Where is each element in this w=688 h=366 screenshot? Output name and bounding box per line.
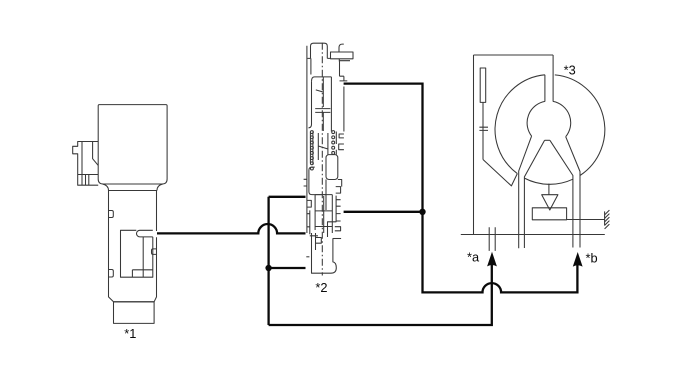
valve body *2 right port C2 (339, 144, 344, 150)
valve body *2 bottom left bracket (310, 236, 322, 243)
arrowhead *b (573, 252, 583, 267)
*3 strut inner right leg (550, 140, 573, 247)
*3 piston rectangle (532, 208, 566, 220)
*3 hub circle left arc (527, 101, 545, 136)
*3 narrow rod rectangle (480, 68, 486, 102)
arrowhead *a (487, 252, 497, 267)
solenoid *1 connector inner vertical 1 (81, 142, 83, 175)
valve body *2 lower spool verticals (315, 195, 332, 233)
valve body *2 right C-bracket (336, 187, 341, 194)
brake band assembly *3 case top edge (474, 54, 554, 56)
valve body *2 top cap (307, 43, 330, 58)
valve body *2 left C-notch (307, 200, 311, 207)
solenoid *1 connector mid line (78, 174, 99, 176)
*3 port a lines (489, 227, 495, 251)
*3 piston center rod (548, 184, 550, 195)
valve body *2 right wall upper (343, 87, 345, 132)
*3 strut outer right leg (566, 137, 580, 248)
valve body *2 bottom right tick (333, 238, 341, 240)
solenoid *1 body left notch lower (109, 270, 114, 278)
wire: left vertical run (269, 197, 306, 325)
valve body *2 bottom outline (312, 233, 337, 273)
solenoid *1 connector outline (73, 142, 99, 186)
*3 anchor rod adjuster ticks (479, 127, 488, 130)
valve body *2 left inner wall (307, 210, 310, 234)
wire: *1 output to *2 left mid port with crossover hump (157, 224, 306, 233)
solenoid *1 connector lower pins (82, 175, 89, 186)
solenoid *1 tip (114, 302, 155, 324)
solenoid *1 inner chamber (121, 230, 153, 277)
*3 strut inner left leg (524, 140, 544, 248)
valve body *2 right lower C-bracket (335, 227, 341, 231)
valve body *2 left ticks (304, 179, 307, 186)
*3 band slot right vertical (552, 55, 554, 102)
svg-text:*3: *3 (564, 63, 576, 78)
svg-text:*1: *1 (124, 326, 136, 341)
solenoid *1 body left notch upper (109, 211, 114, 218)
valve body *2 mid spool (318, 133, 328, 160)
wire: junction branch to *2 right port (344, 211, 423, 213)
solenoid *1 connector inner vertical 2 with notch (93, 142, 99, 166)
*3 anchor rod (482, 102, 484, 159)
solenoid valve *1 coil body (98, 105, 167, 184)
*3 anchor wall (604, 211, 606, 225)
valve body *2 upper bore walls (311, 58, 347, 81)
valve body *2 spring right coil (332, 131, 335, 155)
brake band assembly *3 case left edge (473, 55, 475, 235)
svg-text:*b: *b (586, 251, 598, 266)
valve body *2 right rectangle port (331, 52, 354, 59)
valve body *2 mid block A stub (338, 180, 342, 187)
solenoid *1 inner squares (132, 270, 152, 277)
solenoid *1 coil left foot (103, 184, 109, 191)
valve body *2 mid block A (326, 155, 338, 180)
solenoid *1 body right notch (152, 249, 157, 255)
valve body *2 right port C1 (339, 134, 344, 138)
*3 strut outer left leg (519, 136, 532, 248)
*3 hub circle right arc (553, 101, 571, 136)
junction dot left (265, 265, 271, 271)
wire: *2 top to right vertical run (344, 84, 578, 293)
solenoid *1 valve body outline (109, 191, 157, 302)
*3 band slot left vertical (544, 75, 546, 102)
*3 baseline (461, 234, 605, 236)
solenoid *1 coil right foot (157, 184, 163, 191)
valve body *2 mid block B (309, 167, 326, 195)
valve body *2 tick under rectangle (339, 59, 350, 62)
valve body *2 spring left coil (310, 131, 313, 170)
*3 anchor wall hatching (605, 210, 610, 229)
valve body *2 right wall lower (328, 196, 337, 237)
*3 rod to anchor wall (567, 219, 605, 221)
valve body *2 left outer wall (306, 46, 308, 233)
*3 strut apex (545, 139, 550, 141)
valve body *2 right ticks (336, 200, 341, 221)
svg-text:*2: *2 (315, 280, 327, 295)
*3 band outer arc right segment (555, 75, 605, 176)
valve body *2 top hook (339, 44, 344, 52)
*3 band outer arc left segment (495, 75, 545, 174)
solenoid *1 inner divider (142, 237, 144, 277)
*3 band bottom sag arc (524, 178, 573, 184)
*3 anchor diagonal strut (483, 160, 517, 186)
wire: bottom run to *a arrow (269, 263, 492, 325)
wire: junction branch to *2 lower-left port (269, 267, 306, 269)
valve body *2 lower spool horizontals (315, 195, 332, 227)
*3 spring triangle (542, 195, 558, 210)
valve body *2 small left dash (306, 256, 309, 258)
svg-text:*a: *a (467, 250, 480, 265)
solenoid *1 terminal capsule (137, 230, 153, 237)
valve body *2 centerline (dash-dot) (321, 43, 323, 276)
valve body *2 spring bore walls (310, 132, 336, 165)
valve body *2 upper spool (309, 77, 332, 132)
junction dot right (419, 209, 425, 215)
